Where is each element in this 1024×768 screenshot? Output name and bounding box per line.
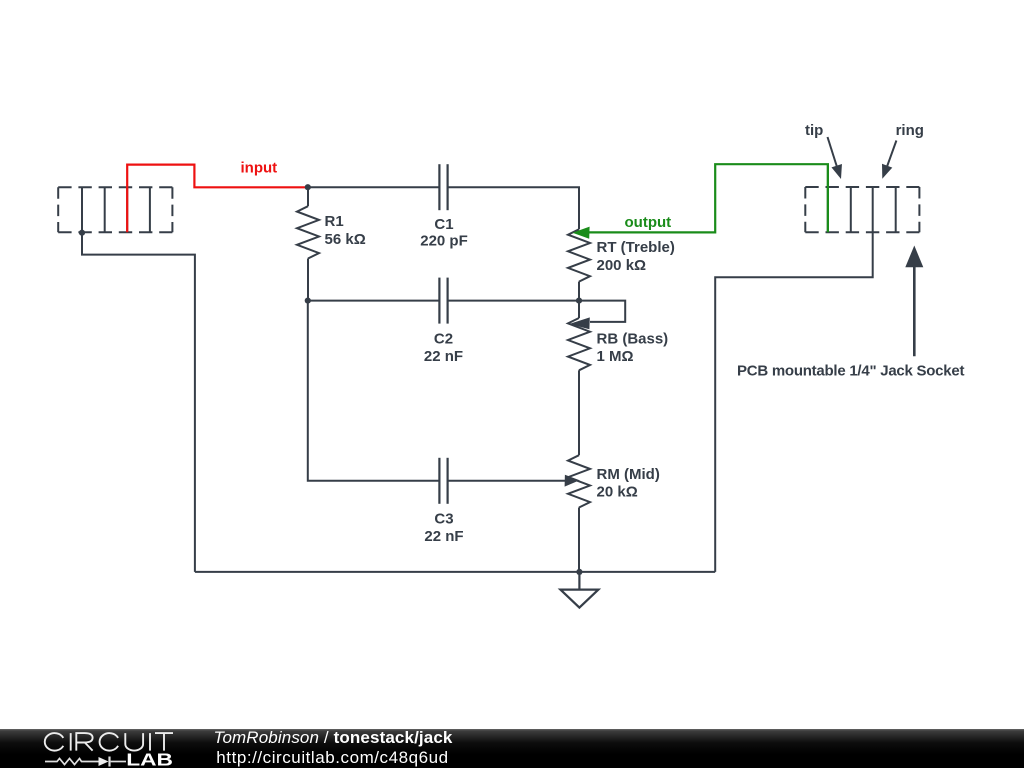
svg-text:20 kΩ: 20 kΩ: [597, 484, 638, 501]
potentiometer RT (Treble): [568, 229, 590, 300]
node C junction dot (right, row 2): [576, 298, 582, 304]
pin J2.1 (tip contact): [827, 187, 829, 232]
resistor R1: [297, 187, 319, 300]
annotation arrow: jack socket pointer (big up arrow): [905, 246, 923, 357]
wire: node B down left column to C3 row: [308, 301, 440, 481]
svg-text:LAB: LAB: [126, 751, 173, 768]
wire: C2 right plate to node C: [448, 300, 579, 302]
label RT value: [597, 239, 675, 274]
wire: green output net from RT wiper to J2 tip: [589, 164, 828, 232]
svg-text:22 nF: 22 nF: [424, 348, 463, 365]
node A junction dot (input node): [305, 184, 311, 190]
svg-text:ring: ring: [896, 122, 924, 139]
jack J1 (input jack socket, dashed body): [58, 187, 172, 232]
pin J1.3 (tip contact): [126, 187, 128, 232]
svg-text:1 MΩ: 1 MΩ: [597, 348, 634, 365]
arrowhead: RB wiper: [569, 317, 590, 329]
footer bar: [0, 729, 1024, 768]
node B junction dot (left, row 2): [305, 298, 311, 304]
capacitor C2: [439, 278, 447, 324]
wire: node B to C2 left plate: [308, 300, 440, 302]
node: ground junction dot: [576, 569, 582, 575]
wire: J1 sleeve to ground bus (left outer loop): [82, 233, 195, 572]
annotation arrow: tip pointer: [828, 137, 847, 181]
capacitor C1: [439, 164, 447, 210]
wire: C1 right plate to RT top: [448, 187, 579, 229]
label RB value: [597, 331, 669, 366]
wire: RB wiper loop to node C: [579, 301, 625, 322]
arrowhead: RM wiper: [565, 475, 580, 487]
svg-text:RM (Mid): RM (Mid): [597, 466, 660, 483]
label C3 value: [424, 511, 463, 546]
wire: green output net overlay on J2 tip pin: [827, 164, 829, 232]
annotation arrow: ring pointer: [877, 141, 896, 181]
label C2 value: [424, 331, 463, 366]
wire: ground bus (bottom row): [195, 571, 715, 573]
svg-text:input: input: [241, 160, 278, 177]
arrowhead: RT wiper (green): [573, 227, 590, 239]
wire: right outer loop from ground bus to J2 pin 3: [715, 232, 873, 572]
ground symbol: [560, 572, 598, 608]
logo: CIRCUIT wordmark: [45, 733, 173, 751]
svg-text:output: output: [625, 214, 672, 231]
label RM value: [597, 466, 660, 501]
pin J1.4: [149, 187, 151, 232]
potentiometer RM (Mid): [568, 455, 590, 572]
svg-text:RT (Treble): RT (Treble): [597, 239, 675, 256]
svg-text:22 nF: 22 nF: [424, 528, 463, 545]
label C1 value: [420, 216, 468, 250]
node: J1 sleeve junction: [79, 230, 85, 236]
potentiometer RB (Bass): [568, 301, 590, 456]
svg-text:C2: C2: [434, 331, 453, 348]
pin J1.2: [104, 187, 106, 232]
wire: red input net from J1 tip to node A: [127, 165, 308, 233]
jack J2 (output jack socket, dashed body): [805, 187, 919, 232]
pin J2.3 (sleeve): [872, 187, 874, 232]
svg-text:C3: C3: [434, 511, 453, 528]
svg-text:220 pF: 220 pF: [420, 233, 468, 250]
svg-text:C1: C1: [434, 216, 453, 233]
label R1 value: [325, 213, 366, 248]
svg-text:200 kΩ: 200 kΩ: [597, 257, 647, 274]
svg-text:R1: R1: [325, 213, 344, 230]
pin J1.1 (sleeve): [81, 187, 83, 232]
svg-text:TomRobinson / tonestack/jack: TomRobinson / tonestack/jack: [214, 729, 453, 747]
wire: node A to C1 left plate: [308, 186, 440, 188]
svg-text:PCB mountable 1/4" Jack Socket: PCB mountable 1/4" Jack Socket: [737, 363, 964, 380]
pin J2.2: [850, 187, 852, 232]
svg-text:http://circuitlab.com/c48q6ud: http://circuitlab.com/c48q6ud: [216, 748, 448, 767]
logo: resistor-diode squiggle: [45, 757, 126, 767]
capacitor C3: [439, 458, 447, 504]
svg-text:56 kΩ: 56 kΩ: [325, 231, 366, 248]
svg-text:tip: tip: [805, 122, 823, 139]
pin J2.4: [895, 187, 897, 232]
svg-text:RB (Bass): RB (Bass): [597, 331, 669, 348]
wire: C3 right plate to RM wiper: [448, 480, 566, 482]
